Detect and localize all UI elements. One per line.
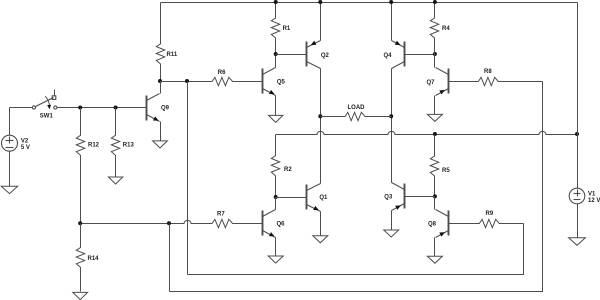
svg-text:R6: R6 <box>218 70 226 76</box>
svg-text:R9: R9 <box>486 211 494 217</box>
svg-text:R14: R14 <box>88 256 100 262</box>
svg-text:SW1: SW1 <box>40 113 54 119</box>
svg-text:LOAD: LOAD <box>348 105 366 111</box>
svg-text:Q4: Q4 <box>384 53 393 59</box>
svg-text:12 V: 12 V <box>588 198 600 204</box>
svg-text:R7: R7 <box>217 211 225 217</box>
svg-text:R2: R2 <box>284 167 292 173</box>
svg-text:R8: R8 <box>484 69 492 75</box>
svg-text:Q1: Q1 <box>319 195 328 201</box>
svg-text:R1: R1 <box>283 26 291 32</box>
svg-text:Q8: Q8 <box>428 222 437 228</box>
svg-text:Q6: Q6 <box>277 222 286 228</box>
svg-text:R13: R13 <box>123 143 135 149</box>
svg-text:5 V: 5 V <box>21 145 30 151</box>
svg-text:Q5: Q5 <box>277 79 286 85</box>
svg-text:Q2: Q2 <box>321 53 330 59</box>
svg-text:R11: R11 <box>167 52 178 58</box>
svg-text:R12: R12 <box>88 143 100 149</box>
svg-text:Q3: Q3 <box>384 194 393 200</box>
svg-text:V2: V2 <box>21 138 29 144</box>
svg-text:Q7: Q7 <box>427 80 436 86</box>
svg-text:Q9: Q9 <box>161 106 170 112</box>
svg-text:R5: R5 <box>442 168 450 174</box>
svg-text:R4: R4 <box>442 26 450 32</box>
svg-text:V1: V1 <box>588 191 596 197</box>
